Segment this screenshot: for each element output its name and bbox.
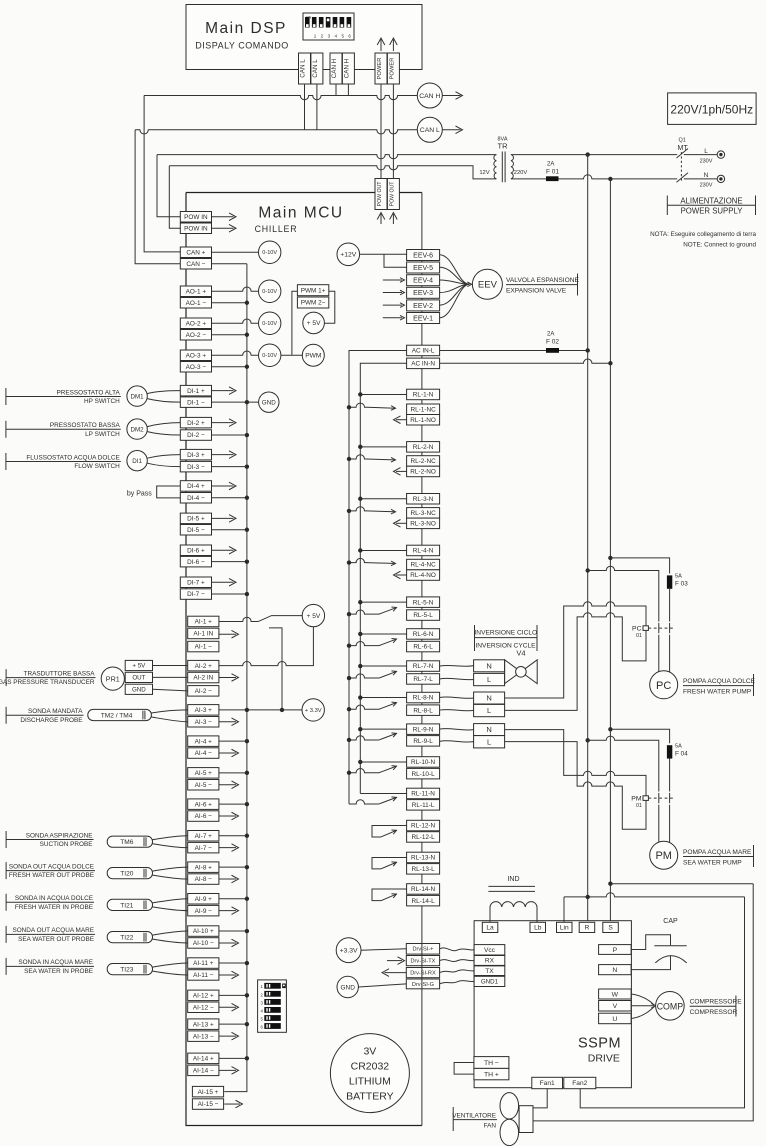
wire DI-7 − to trunk xyxy=(212,593,247,595)
wire sensor lead + xyxy=(147,455,180,459)
svg-text:CAN L: CAN L xyxy=(312,59,319,78)
arrow EEV-3 xyxy=(400,290,405,295)
wire PC pole L xyxy=(588,566,659,671)
svg-text:GND1: GND1 xyxy=(481,979,499,986)
wire PWM1+ left leg xyxy=(292,291,298,354)
terminal DI-6 − xyxy=(180,556,211,567)
svg-text:SEA WATER OUT PROBE: SEA WATER OUT PROBE xyxy=(18,936,94,943)
terminal DI-6 + xyxy=(180,545,211,556)
terminal Lb xyxy=(530,922,546,932)
junction xyxy=(347,676,351,680)
svg-text:DM2: DM2 xyxy=(131,426,145,433)
relay contact RL-3 xyxy=(349,507,407,527)
junction xyxy=(245,708,249,712)
svg-text:RL-12-L: RL-12-L xyxy=(412,834,436,841)
probe TI22 xyxy=(107,932,152,943)
terminal AI-10 + xyxy=(188,926,219,937)
terminal DI-4 − xyxy=(180,493,211,504)
junction xyxy=(608,361,612,365)
svg-text:AI-13 +: AI-13 + xyxy=(193,1021,214,1028)
svg-text:EEV-1: EEV-1 xyxy=(413,315,433,322)
inverter SSPM DRIVE box xyxy=(474,921,631,1088)
wire AI-7- lead xyxy=(219,847,236,849)
wire AI-12+ to trunk xyxy=(219,994,247,996)
svg-text:DI-4 −: DI-4 − xyxy=(187,495,205,502)
svg-text:AI-9 −: AI-9 − xyxy=(195,908,212,915)
wire AI-10+ to trunk xyxy=(219,930,247,932)
svg-text:RL-13-N: RL-13-N xyxy=(411,855,436,862)
switch DI1 xyxy=(127,451,147,471)
wire sensor lead - xyxy=(147,399,180,403)
fan VENTILATORE xyxy=(500,1093,519,1146)
wire AI-4- lead xyxy=(219,752,236,754)
svg-text:INVERSIONE CICLO: INVERSIONE CICLO xyxy=(474,629,537,636)
wire probe lead - xyxy=(153,939,188,943)
arrow EEV-4 xyxy=(400,278,405,283)
wire RL-9-N to N xyxy=(440,729,474,731)
wire RL-7-N to valve N xyxy=(440,664,474,667)
wire EEV coil EEV-5 xyxy=(440,267,470,284)
svg-text:0-10V: 0-10V xyxy=(262,289,277,295)
wire +5V to AI-2+ xyxy=(219,627,314,666)
svg-text:RL-7-N: RL-7-N xyxy=(413,663,434,670)
arrow COMP xyxy=(651,1004,656,1009)
junction xyxy=(358,497,362,501)
wire AI-9- lead xyxy=(219,910,236,912)
terminal POWER (DSP pin 5) xyxy=(375,53,387,84)
svg-text:Fan2: Fan2 xyxy=(572,1080,587,1087)
svg-text:AI-11 −: AI-11 − xyxy=(193,972,214,979)
terminal AI-6 − xyxy=(188,811,219,822)
capacitor CAP xyxy=(654,918,686,963)
svg-text:RL-14-N: RL-14-N xyxy=(411,886,436,893)
junction xyxy=(245,771,249,775)
terminal CAN H (DSP pin 4) xyxy=(342,53,354,84)
wire AI-11- lead xyxy=(219,974,236,976)
svg-text:Vcc: Vcc xyxy=(484,947,496,954)
arrow AI-8 − xyxy=(232,875,239,883)
junction xyxy=(347,738,351,742)
junction xyxy=(358,548,362,552)
svg-text:CAN −: CAN − xyxy=(186,261,205,268)
switch Q1 MT xyxy=(677,138,689,183)
label SSPM DRIVE xyxy=(578,1036,621,1065)
wire sensor lead + xyxy=(147,423,180,427)
terminal RL-4-NO xyxy=(407,570,440,581)
terminal RL-9-L xyxy=(407,736,440,747)
svg-text:RL-6-N: RL-6-N xyxy=(413,631,434,638)
svg-text:TI20: TI20 xyxy=(120,871,134,878)
svg-text:TRASDUTTORE BASSA: TRASDUTTORE BASSA xyxy=(24,670,96,677)
svg-text:RL-4-NC: RL-4-NC xyxy=(410,562,436,569)
junction xyxy=(245,1056,249,1060)
terminal RL-13-L xyxy=(407,864,440,875)
svg-text:DI-1 +: DI-1 + xyxy=(187,388,205,395)
wire RL-7-L to valve L xyxy=(440,678,474,679)
svg-text:EEV-4: EEV-4 xyxy=(413,278,433,285)
svg-text:CAN +: CAN + xyxy=(186,249,205,256)
junction xyxy=(358,632,362,636)
battery 3V CR2032 xyxy=(330,1034,409,1113)
svg-text:+ 5V: + 5V xyxy=(307,613,321,620)
terminal AI-5 + xyxy=(188,768,219,779)
node +5V (PWM) xyxy=(303,312,325,334)
svg-text:RX: RX xyxy=(485,958,495,965)
wire AI-10- lead xyxy=(219,942,236,944)
node GND (Drv) xyxy=(337,976,358,997)
wire RL-3-N feed xyxy=(360,498,406,500)
svg-text:CAN H: CAN H xyxy=(343,58,350,78)
terminal RL-9-N xyxy=(407,724,440,735)
svg-text:MT: MT xyxy=(678,145,689,152)
terminal GND1 xyxy=(474,976,505,986)
terminal Vcc xyxy=(474,945,505,955)
wire probe lead + xyxy=(153,899,188,903)
terminal AI-13 + xyxy=(188,1019,219,1030)
wire L rail xyxy=(587,155,589,922)
svg-text:OUT: OUT xyxy=(132,675,145,682)
svg-text:P: P xyxy=(613,947,618,954)
wire POWER lead 2 xyxy=(392,84,394,179)
junction xyxy=(347,612,351,616)
terminal RL-5-N xyxy=(407,597,440,608)
svg-text:220V/1ph/50Hz: 220V/1ph/50Hz xyxy=(670,103,753,117)
svg-text:LP SWITCH: LP SWITCH xyxy=(85,431,120,438)
svg-text:GND: GND xyxy=(262,399,276,406)
node +3.3V (AI) xyxy=(302,699,324,721)
svg-text:AI-4 −: AI-4 − xyxy=(195,750,212,757)
svg-text:POMPA ACQUA DOLCE: POMPA ACQUA DOLCE xyxy=(683,678,756,685)
label Main MCU xyxy=(255,205,344,235)
svg-text:SONDA OUT ACQUA DOLCE: SONDA OUT ACQUA DOLCE xyxy=(9,863,94,870)
svg-text:DI-1 −: DI-1 − xyxy=(187,399,205,406)
terminal AI-5 − xyxy=(188,780,219,791)
wire sensor lead + xyxy=(147,391,180,394)
arrow AI-11 − xyxy=(232,971,239,979)
svg-text:RL-3-NC: RL-3-NC xyxy=(410,510,436,517)
terminal RL-8-L xyxy=(407,705,440,716)
svg-text:RL-13-L: RL-13-L xyxy=(412,866,436,873)
terminal N 230V xyxy=(700,172,725,189)
arrow POW OUT up 1 xyxy=(377,213,385,225)
svg-text:L: L xyxy=(487,706,491,715)
wire AI-7+ to trunk xyxy=(219,835,247,837)
relay contact RL-8 xyxy=(349,701,397,710)
junction xyxy=(245,1022,249,1026)
wire RL-5-N feed xyxy=(360,601,406,603)
svg-text:AI-15 +: AI-15 + xyxy=(198,1089,219,1096)
terminal Lin xyxy=(557,922,573,932)
wire probe lead + xyxy=(151,710,187,713)
switch DM2 xyxy=(127,419,147,439)
wire probe lead + xyxy=(153,963,188,967)
svg-text:TM6: TM6 xyxy=(120,839,134,846)
svg-text:SONDA IN ACQUA DOLCE: SONDA IN ACQUA DOLCE xyxy=(15,895,93,902)
label fresh water in probe xyxy=(6,894,94,911)
arrow AI-7 − xyxy=(232,844,239,852)
terminal RL-2-NC xyxy=(407,456,440,467)
transformer TR xyxy=(479,137,527,183)
wire fan loop outer xyxy=(533,884,753,1121)
svg-text:SONDA ASPIRAZIONE: SONDA ASPIRAZIONE xyxy=(26,832,93,839)
svg-text:HP SWITCH: HP SWITCH xyxy=(84,398,120,405)
svg-text:FRESH WATER PUMP: FRESH WATER PUMP xyxy=(683,688,752,695)
svg-text:+12V: +12V xyxy=(340,252,357,259)
svg-text:TI21: TI21 xyxy=(120,902,134,909)
valve V4 xyxy=(505,649,538,684)
junction xyxy=(347,457,351,461)
svg-text:VALVOLA ESPANSIONE: VALVOLA ESPANSIONE xyxy=(506,277,580,284)
wire probe lead + xyxy=(153,836,188,840)
junction xyxy=(586,738,590,742)
junction xyxy=(245,365,249,369)
wire DI-3 − to trunk xyxy=(212,466,247,468)
terminal AI-15 + xyxy=(192,1086,223,1097)
arrow AI-10 − xyxy=(232,939,239,947)
terminal DI-2 − xyxy=(180,430,211,441)
junction xyxy=(347,643,351,647)
label gas pressure transducer xyxy=(0,669,96,686)
wire stub EEV-1 xyxy=(383,317,402,319)
arrow EEV-2 xyxy=(400,303,405,308)
svg-text:Main MCU: Main MCU xyxy=(258,205,343,222)
label inversion cycle xyxy=(474,625,537,651)
svg-text:PM: PM xyxy=(631,795,642,802)
svg-text:TM2 / TM4: TM2 / TM4 xyxy=(101,712,133,719)
arrow POW IN xyxy=(229,224,236,232)
svg-text:AO-2 +: AO-2 + xyxy=(186,320,207,327)
wire AO-3 − to trunk xyxy=(212,366,247,368)
wire PM pole N xyxy=(669,759,671,842)
terminal RL-3-NC xyxy=(407,508,440,518)
terminal AI-1 − xyxy=(188,641,219,652)
arrow AI-6 − xyxy=(232,812,239,820)
wire POW IN lead xyxy=(212,227,234,229)
controller Main MCU outline xyxy=(186,193,422,1126)
relay contact RL-6 xyxy=(349,637,397,646)
terminal R xyxy=(579,922,595,932)
terminal RL-7-L xyxy=(407,674,440,685)
svg-text:DI-4 +: DI-4 + xyxy=(187,483,205,490)
label sea water in probe xyxy=(6,958,94,975)
junction xyxy=(245,834,249,838)
wire PWM1+ to +5V xyxy=(325,291,335,323)
svg-text:POWER SUPPLY: POWER SUPPLY xyxy=(681,207,744,216)
wire stub EEV-4 xyxy=(383,279,402,281)
svg-text:12V: 12V xyxy=(479,170,489,176)
svg-text:AC IN-L: AC IN-L xyxy=(412,348,435,355)
terminal CAN − xyxy=(180,259,211,270)
terminal TH + xyxy=(474,1068,509,1079)
svg-text:DI-2 −: DI-2 − xyxy=(187,432,205,439)
jumper by Pass xyxy=(127,486,180,498)
svg-text:FLOW SWITCH: FLOW SWITCH xyxy=(74,463,120,470)
svg-text:AO-1 −: AO-1 − xyxy=(186,300,207,307)
svg-text:INVERSION CYCLE: INVERSION CYCLE xyxy=(475,642,536,649)
svg-text:RL-2-NC: RL-2-NC xyxy=(410,458,436,465)
svg-text:DRIVE: DRIVE xyxy=(588,1053,620,1065)
wire PC supply via F03 xyxy=(610,558,669,574)
wire AI-8+ to trunk xyxy=(219,866,247,868)
terminal AI-11 + xyxy=(188,958,219,969)
terminal PR1 OUT xyxy=(125,672,152,682)
wire AI-14+ to trunk xyxy=(219,1057,247,1059)
svg-text:Drv-SI-+: Drv-SI-+ xyxy=(412,947,433,953)
svg-text:F 02: F 02 xyxy=(546,339,559,346)
terminal CAN + xyxy=(180,247,211,258)
label ventilatore fan xyxy=(452,1107,497,1131)
node GND (DI-1) xyxy=(259,392,279,412)
svg-text:230V: 230V xyxy=(700,159,713,165)
svg-text:POWER: POWER xyxy=(389,58,395,80)
fuse F02 xyxy=(546,332,559,353)
terminal AI-12 + xyxy=(188,990,219,1001)
label flow switch xyxy=(6,453,121,470)
label suction probe xyxy=(6,831,93,848)
wire stub EEV-2 xyxy=(383,304,402,306)
wire Drv to SSPM serial xyxy=(440,960,475,962)
wire Drv to SSPM serial xyxy=(440,948,475,951)
terminal Fan2 xyxy=(564,1077,596,1088)
junction xyxy=(245,897,249,901)
junction xyxy=(358,695,362,699)
junction xyxy=(358,760,362,764)
junction xyxy=(245,559,249,563)
terminal RL-1-NO xyxy=(407,415,440,426)
svg-text:AI-3 +: AI-3 + xyxy=(195,707,212,714)
wire CAN L bus xyxy=(135,130,417,134)
svg-text:by Pass: by Pass xyxy=(127,490,152,497)
svg-text:DI-5 −: DI-5 − xyxy=(187,527,205,534)
junction xyxy=(280,708,284,712)
arrow AI-4 − xyxy=(232,749,239,757)
terminal Drv-SI-TX xyxy=(406,956,439,966)
contactor coil PC 01 xyxy=(632,623,673,639)
wire mains N xyxy=(511,175,677,179)
terminal V xyxy=(599,1001,632,1012)
terminal PWM 1+ xyxy=(297,285,328,296)
transducer PR1 xyxy=(101,667,124,690)
wire mains L xyxy=(511,154,677,156)
terminal AI-11 − xyxy=(188,970,219,981)
wire CAN L lead 1 xyxy=(304,84,306,130)
terminal L 230V xyxy=(700,148,725,165)
wire DI-5 + lead xyxy=(212,517,234,519)
wire CAN L bus to CAN- xyxy=(135,130,180,264)
wire PC coil feed N xyxy=(505,602,646,698)
arrow DI-5 + xyxy=(229,515,236,523)
terminal EEV-4 xyxy=(407,275,440,286)
terminal AC IN-N xyxy=(407,358,440,369)
terminal Drv-SI-RX xyxy=(406,968,439,978)
svg-text:AI-6 −: AI-6 − xyxy=(195,813,212,820)
terminal RX xyxy=(474,956,505,966)
wire RL-6-N feed xyxy=(360,633,406,635)
arrow AI-9 − xyxy=(232,907,239,915)
svg-text:AI-3 −: AI-3 − xyxy=(195,719,212,726)
svg-text:PR1: PR1 xyxy=(106,674,120,683)
arrow Drv-SI-RX out xyxy=(382,969,406,977)
terminal AO-1 + xyxy=(180,286,211,297)
terminal AI-9 − xyxy=(188,905,219,916)
svg-text:RL-3-NO: RL-3-NO xyxy=(410,521,436,528)
wire AI-15- lead xyxy=(224,1103,240,1105)
node CAN H xyxy=(417,83,442,108)
wire DI-3 + lead xyxy=(212,454,234,456)
wire TR 12V to POW IN 1 xyxy=(157,155,496,217)
terminal AI-13 − xyxy=(188,1031,219,1042)
svg-text:RL-7-L: RL-7-L xyxy=(413,676,433,683)
wire AI-6- lead xyxy=(219,815,236,817)
relay contact RL-2 xyxy=(349,455,407,475)
junction xyxy=(245,993,249,997)
svg-text:COMPRESSOR: COMPRESSOR xyxy=(690,1009,738,1016)
arrow EEV-1 xyxy=(400,315,405,320)
svg-text:AO-1 +: AO-1 + xyxy=(186,288,207,295)
terminal RL-7-N xyxy=(407,661,440,672)
terminal DI-3 − xyxy=(180,461,211,472)
svg-text:DI-2 +: DI-2 + xyxy=(187,420,205,427)
svg-text:DM1: DM1 xyxy=(131,393,145,400)
svg-text:N: N xyxy=(486,725,491,734)
svg-text:SONDA MANDATA: SONDA MANDATA xyxy=(28,708,83,715)
svg-text:Lb: Lb xyxy=(534,925,542,932)
wire sensor lead - xyxy=(147,463,180,466)
svg-text:N: N xyxy=(612,967,617,974)
wire Drv to SSPM serial xyxy=(440,980,475,983)
wire DI-6 + lead xyxy=(212,549,234,551)
terminal PR1 GND xyxy=(125,684,152,694)
terminal RL-6-N xyxy=(407,629,440,640)
svg-text:RL-10-N: RL-10-N xyxy=(411,759,436,766)
terminal AI-9 + xyxy=(188,894,219,905)
svg-text:RL-9-L: RL-9-L xyxy=(413,738,433,745)
svg-text:DISCHARGE PROBE: DISCHARGE PROBE xyxy=(20,717,82,724)
wire CAN H bus to CAN+ xyxy=(144,96,180,252)
terminal TX xyxy=(474,966,505,976)
svg-text:AI-2 IN: AI-2 IN xyxy=(193,675,213,682)
wire AO-1 − to trunk xyxy=(212,302,247,304)
wire AI-6+ to trunk xyxy=(219,803,247,805)
svg-text:DI-5 +: DI-5 + xyxy=(187,516,205,523)
bracket TH sensor xyxy=(454,1063,474,1075)
arrow DI-1 + xyxy=(229,387,236,395)
svg-text:TX: TX xyxy=(485,968,494,975)
svg-text:AI-1 IN: AI-1 IN xyxy=(193,631,213,638)
terminal POWER (DSP pin 6) xyxy=(387,53,399,84)
terminal pump PM L xyxy=(474,736,505,748)
node +12V xyxy=(337,243,360,266)
wire AI-5+ to trunk xyxy=(219,772,247,774)
terminal RL-12-N xyxy=(407,820,440,831)
svg-text:AI-11 +: AI-11 + xyxy=(193,960,214,967)
svg-text:RL-11-N: RL-11-N xyxy=(411,791,435,798)
terminal AO-2 − xyxy=(180,330,211,341)
wire probe lead - xyxy=(153,875,188,879)
svg-text:Main DSP: Main DSP xyxy=(205,20,287,37)
junction xyxy=(358,727,362,731)
terminal pump PM N xyxy=(474,724,505,736)
terminal EEV-1 xyxy=(407,313,440,324)
terminal EEV-5 xyxy=(407,262,440,273)
svg-text:+ 5V: + 5V xyxy=(132,663,146,670)
svg-text:GND: GND xyxy=(132,686,146,693)
svg-text:TI22: TI22 xyxy=(120,935,134,942)
svg-text:RL-12-N: RL-12-N xyxy=(411,823,436,830)
terminal Fan1 xyxy=(532,1077,563,1088)
relay contact RL-1 xyxy=(349,403,407,423)
terminal pump PC N xyxy=(474,692,505,704)
